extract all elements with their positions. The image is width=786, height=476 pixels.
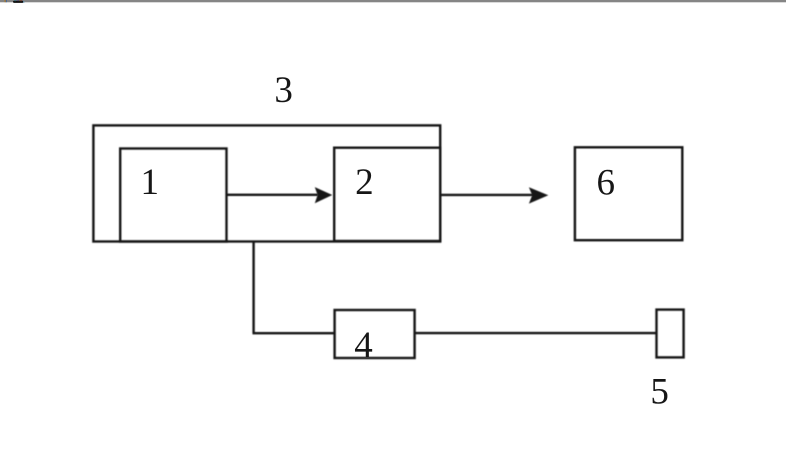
arrowhead of arrow 2 [529,187,548,203]
svg-text:4: 4 [354,325,373,366]
box 1 [120,149,226,242]
box 5 (small terminal rectangle) [657,310,684,358]
wire: vertical drop from box 3 bottom [252,243,254,334]
box 4 [335,310,415,358]
box 6 [575,147,682,240]
svg-text:1: 1 [140,162,159,203]
top gray screen-edge bar [0,0,786,2]
wire: horizontal into box 4 [253,332,335,334]
top-left screenshot artifact blob [5,0,25,3]
svg-text:5: 5 [650,371,669,412]
wire: arrow shaft box 2 to box 6 [440,194,534,196]
svg-text:2: 2 [355,162,374,203]
wire: arrow shaft box 1 to box 2 [227,194,319,196]
wire: box 4 to box 5 [415,332,657,334]
box 3 (outer enclosure rectangle) [93,125,440,241]
svg-text:3: 3 [274,70,293,111]
svg-text:6: 6 [597,162,616,203]
box 2 [334,148,440,241]
arrowhead of arrow 1 [315,187,333,203]
